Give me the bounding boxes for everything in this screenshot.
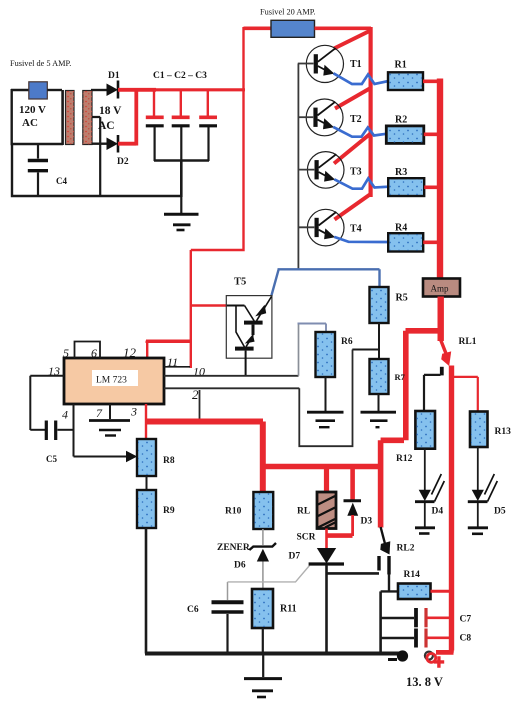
wire base bus vertical xyxy=(297,64,299,270)
wire pin13 to C5 xyxy=(30,376,64,430)
svg-text:C1 – C2 – C3: C1 – C2 – C3 xyxy=(153,71,207,81)
fuse F2 20A xyxy=(271,20,315,37)
wire red to fuse20 left xyxy=(244,26,272,30)
wire blue emitter T4 to R4 xyxy=(334,237,388,242)
svg-text:D4: D4 xyxy=(432,507,444,517)
svg-text:C6: C6 xyxy=(187,605,199,615)
wire red R3 to right bus xyxy=(424,186,440,190)
wire red pin12 feed xyxy=(146,341,192,343)
svg-text:D6: D6 xyxy=(234,561,246,571)
svg-text:T5: T5 xyxy=(234,277,246,288)
svg-text:18 V: 18 V xyxy=(99,105,122,117)
svg-text:4: 4 xyxy=(62,408,68,422)
wire primary bottom xyxy=(11,143,64,145)
transistor T1 xyxy=(298,45,362,82)
svg-text:ZENER: ZENER xyxy=(217,543,250,553)
svg-text:R3: R3 xyxy=(395,167,407,178)
wire blue T5 collector to R5 top xyxy=(271,269,379,296)
resistor R11 xyxy=(252,589,273,628)
capacitor C5 xyxy=(30,429,45,431)
wire secondary top to D1 xyxy=(91,89,107,91)
svg-text:R11: R11 xyxy=(280,604,297,615)
transistor T4 xyxy=(298,209,362,246)
wire red RL bottom xyxy=(325,529,328,550)
wire SCR cathode to RL2 contact xyxy=(327,572,380,575)
svg-text:D2: D2 xyxy=(117,157,129,167)
wire blue emitter T3 to R3 xyxy=(334,179,388,189)
wire pin2 line xyxy=(164,387,299,389)
svg-text:12: 12 xyxy=(123,345,137,360)
wire pin2 branch down to red bus xyxy=(199,390,201,419)
svg-text:R10: R10 xyxy=(225,507,242,517)
wire red R2 to right bus xyxy=(424,133,440,137)
svg-text:R12: R12 xyxy=(396,454,413,464)
wire R7 bottom xyxy=(378,394,380,411)
diode D2 xyxy=(107,138,119,151)
wire R6 bottom xyxy=(325,377,327,411)
wire pin10 line xyxy=(164,375,299,377)
capacitor C4 xyxy=(37,144,39,159)
svg-text:D1: D1 xyxy=(108,71,120,81)
svg-text:6: 6 xyxy=(91,346,97,360)
resistor R5 xyxy=(370,287,389,323)
diode D1 xyxy=(107,84,119,97)
wire junction R5R7 to left xyxy=(352,349,379,351)
transformer TR1 primary winding xyxy=(66,91,75,145)
output terminal minus xyxy=(397,650,408,661)
wire fuse to transformer xyxy=(47,89,62,91)
wire R11 bottom to bus xyxy=(262,628,264,654)
wire red collector diag T4 xyxy=(335,194,371,220)
wire red mid horizontal to RL D3 xyxy=(263,464,381,470)
svg-text:R6: R6 xyxy=(341,337,353,347)
svg-text:Fusivel de 5 AMP.: Fusivel de 5 AMP. xyxy=(10,59,71,68)
wire red right bus vertical xyxy=(437,79,443,281)
wire R8 to R9 xyxy=(146,476,148,490)
svg-text:13. 8 V: 13. 8 V xyxy=(406,675,443,689)
svg-text:LM 723: LM 723 xyxy=(96,376,127,386)
wire blue emitter T1 to R1 xyxy=(334,73,389,84)
ground G1 xyxy=(180,196,182,214)
svg-text:3: 3 xyxy=(130,405,137,419)
wire red R4 to right bus xyxy=(423,241,440,245)
fuse F1 5A xyxy=(29,82,48,99)
svg-text:D5: D5 xyxy=(494,507,506,517)
ammeter Amp xyxy=(423,279,460,297)
wire primary top left xyxy=(11,89,29,91)
ground G7 under D5 xyxy=(468,526,488,529)
svg-text:Amp: Amp xyxy=(431,284,450,294)
svg-text:R1: R1 xyxy=(395,60,407,71)
transistor T2 xyxy=(298,99,362,136)
capacitor C3 xyxy=(207,90,209,116)
svg-text:RL2: RL2 xyxy=(397,544,415,554)
wire pin5-pin6 loop xyxy=(75,342,101,359)
wire pin4 to R8 wiper arrow xyxy=(74,456,128,458)
svg-text:AC: AC xyxy=(22,117,38,129)
contact RL1 fixed terminal xyxy=(440,367,444,376)
wire R5 to R7 xyxy=(378,323,380,359)
svg-text:R5: R5 xyxy=(396,293,408,304)
wire R9 down to ground bus xyxy=(145,528,148,654)
wire bottom bus left xyxy=(11,143,182,196)
svg-text:C8: C8 xyxy=(460,634,472,644)
wire ground bus bottom xyxy=(145,652,399,656)
svg-text:D3: D3 xyxy=(361,517,373,527)
wire red below ammeter xyxy=(438,297,444,342)
wire thin red to R13 xyxy=(453,377,478,412)
ground G5 under R11 xyxy=(262,654,264,677)
wire red DC bus top xyxy=(134,88,245,91)
svg-text:R7: R7 xyxy=(395,372,406,382)
svg-text:5: 5 xyxy=(63,346,69,360)
ground G3 under R6 xyxy=(307,411,344,414)
resistor R8 potentiometer xyxy=(137,439,156,476)
svg-text:Fusivel 20 AMP.: Fusivel 20 AMP. xyxy=(260,8,316,17)
resistor R7 xyxy=(370,359,389,394)
transistor T3 xyxy=(298,152,362,189)
wire pin7 stub xyxy=(109,404,111,419)
ground G2 under pin7 xyxy=(89,419,130,422)
wire R6 top xyxy=(298,324,300,376)
wire red collector bus vertical xyxy=(369,27,373,197)
svg-text:R9: R9 xyxy=(163,506,175,516)
svg-text:T1: T1 xyxy=(350,59,362,70)
wire secondary bottom to D2 xyxy=(92,142,107,144)
ground G4 under R7 xyxy=(361,411,397,414)
svg-text:SCR: SCR xyxy=(297,533,316,543)
wire RL1 contact to R12 xyxy=(424,375,441,411)
output terminal plus xyxy=(436,648,454,653)
wire RL2 right contact to R14 xyxy=(381,574,398,591)
transformer TR1 secondary winding xyxy=(83,91,92,145)
svg-text:RL: RL xyxy=(297,507,310,517)
wire SCR cathode down xyxy=(325,565,328,654)
wire pin4 down xyxy=(73,404,75,457)
wire red branch to T5 base xyxy=(191,304,227,306)
wire red V+ bus from pin3 xyxy=(145,404,147,440)
svg-text:R14: R14 xyxy=(404,570,421,580)
svg-text:R8: R8 xyxy=(163,456,175,466)
svg-text:RL1: RL1 xyxy=(459,337,477,347)
wire fuse20 right to bus xyxy=(315,26,372,30)
svg-text:D7: D7 xyxy=(289,552,301,562)
capacitor C1 xyxy=(153,90,155,116)
svg-text:C5: C5 xyxy=(46,454,57,464)
wire D2 out red up to bus xyxy=(118,88,136,146)
svg-text:C4: C4 xyxy=(56,176,67,186)
svg-text:T3: T3 xyxy=(350,167,362,178)
svg-text:R4: R4 xyxy=(395,223,407,234)
wire gray R10 to zener xyxy=(262,529,264,545)
wire primary left vertical xyxy=(10,89,12,144)
resistor R6 xyxy=(316,332,336,377)
wire red collector diag T1 xyxy=(334,30,372,49)
svg-text:120 V: 120 V xyxy=(19,104,46,116)
wire red output bus lower xyxy=(449,366,454,651)
wire red R1 to right bus xyxy=(423,80,440,84)
wire red thin vertical from bus down xyxy=(146,27,245,368)
wire red branch to ammeter shunt xyxy=(381,331,441,528)
wire pin11 stub xyxy=(164,366,190,368)
ground G6 under D4 xyxy=(415,526,435,529)
wire gray SCR gate net xyxy=(228,566,310,582)
wire D1 out red xyxy=(118,88,156,92)
resistor R9 xyxy=(137,490,156,528)
capacitor C2 xyxy=(180,90,182,116)
svg-text:T2: T2 xyxy=(350,114,362,125)
IC U1 LM723 xyxy=(64,358,164,404)
wire pin2 route around grounds xyxy=(299,350,352,447)
svg-text:T4: T4 xyxy=(350,224,362,235)
wire gray zener to R11 xyxy=(262,562,264,590)
wire output minus vertical xyxy=(379,591,382,653)
wire secondary center tap xyxy=(92,117,100,196)
svg-text:R13: R13 xyxy=(495,427,512,437)
wire blue emitter T2 to R2 xyxy=(333,127,386,137)
svg-text:C7: C7 xyxy=(460,615,472,625)
wire red collector diag T2 xyxy=(335,88,371,109)
svg-text:R2: R2 xyxy=(395,115,407,126)
wire red collector diag T3 xyxy=(334,134,371,164)
transformer TR1 primary line xyxy=(61,90,64,145)
wire caps common xyxy=(154,161,209,198)
wire red R14 to output bus xyxy=(431,590,452,593)
svg-text:2: 2 xyxy=(192,387,199,402)
svg-text:7: 7 xyxy=(96,406,103,420)
